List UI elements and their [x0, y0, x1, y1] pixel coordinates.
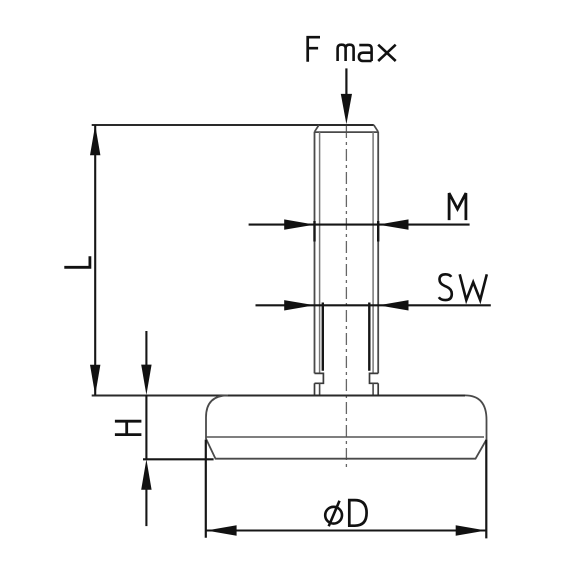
stud chamfer bottom line	[315, 131, 379, 133]
H dimension line middle	[145, 395, 147, 459]
label a	[359, 45, 372, 61]
label W	[460, 274, 487, 300]
SW arrowhead left	[284, 300, 314, 310]
D extension line left	[205, 440, 207, 538]
F max arrow shaft	[345, 68, 347, 96]
neck groove right	[370, 373, 379, 383]
stud outer left edge	[314, 132, 316, 374]
label diameter symbol	[325, 507, 342, 524]
H dimension line lower tail	[145, 487, 147, 526]
thread root line left	[319, 132, 321, 373]
D dimension line	[206, 529, 486, 531]
SW arrowhead right	[378, 300, 408, 310]
label S	[439, 274, 452, 300]
label H (rotated)	[115, 421, 141, 434]
wrench flat line right (SW)	[368, 303, 370, 371]
H dimension line upper with arrow	[145, 331, 147, 368]
thread root line right	[372, 132, 374, 373]
stud bottom stub left outer	[314, 383, 316, 395]
SW dimension line (continuous through stud)	[256, 304, 491, 306]
centerline (dash-dot axis of stud)	[345, 126, 347, 470]
wrench flat line left (SW)	[322, 303, 324, 371]
H bottom extension line	[143, 458, 214, 460]
neck groove left	[315, 373, 324, 383]
L arrowhead top	[90, 125, 100, 155]
D arrowhead left	[206, 525, 236, 535]
M dimension line (continuous through stud)	[249, 224, 470, 226]
label D	[349, 500, 366, 526]
L arrowhead bottom	[90, 365, 100, 395]
M edge tick left	[313, 221, 315, 242]
label L (rotated)	[64, 256, 90, 267]
M arrowhead right	[378, 219, 408, 229]
F max arrowhead	[341, 94, 352, 124]
base cap joint line	[207, 436, 485, 438]
label M	[449, 193, 466, 220]
M arrowhead left	[284, 219, 314, 229]
H arrowhead (down onto base top)	[141, 365, 151, 395]
D extension line right	[485, 440, 487, 539]
stud bottom stub right outer	[377, 383, 379, 395]
D arrowhead right	[456, 525, 486, 535]
base outline	[206, 395, 487, 458]
H arrowhead (up onto base bottom)	[141, 459, 151, 489]
label x	[378, 45, 396, 61]
stud chamfer left	[315, 125, 319, 132]
stud top edge + left extension line for L	[92, 124, 374, 126]
stud bottom stub left inner	[319, 383, 321, 395]
stud outer right edge	[377, 132, 379, 374]
L dimension line	[94, 125, 96, 395]
label F	[308, 37, 320, 62]
base top edge + extension line for L/H	[92, 394, 465, 396]
M edge tick right	[377, 221, 379, 242]
stud bottom stub right inner	[372, 383, 374, 395]
label m	[338, 45, 354, 61]
stud chamfer right	[374, 125, 378, 132]
